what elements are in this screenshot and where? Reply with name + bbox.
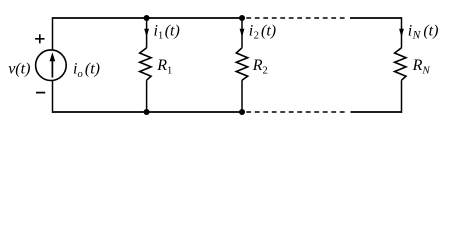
wire RN top lead — [401, 17, 403, 48]
node A top junction 1 — [144, 15, 150, 21]
svg-text:i1(t): i1(t) — [154, 23, 180, 42]
current arrow i1 — [144, 29, 149, 38]
wire top-left horizontal — [53, 17, 243, 19]
wire top dashed — [246, 17, 346, 19]
resistor RN — [395, 48, 406, 80]
resistor R2 — [236, 48, 247, 80]
wire source top lead — [52, 17, 54, 50]
node B top junction 2 — [239, 15, 245, 21]
node D bottom junction 2 — [239, 109, 245, 115]
wire bottom dashed — [246, 111, 346, 113]
wire bottom-right solid — [351, 111, 402, 113]
current source arrow — [50, 52, 56, 77]
svg-text:io(t): io(t) — [73, 61, 100, 81]
current arrow iN — [399, 29, 404, 38]
wire RN bottom lead — [401, 80, 403, 113]
svg-text:v(t): v(t) — [8, 61, 30, 78]
wire R2 bottom lead — [241, 80, 243, 112]
label plus — [35, 34, 44, 43]
wire R2 top lead — [241, 18, 243, 48]
resistor R1 — [140, 48, 151, 80]
node C bottom junction 1 — [144, 109, 150, 115]
wire top-right solid — [350, 17, 402, 19]
wire source bottom lead — [52, 81, 54, 113]
label minus — [36, 92, 45, 94]
current arrow i2 — [240, 29, 245, 38]
wire R1 bottom lead — [146, 80, 148, 112]
current source U1 circle — [36, 50, 67, 81]
svg-text:i2(t): i2(t) — [249, 23, 276, 42]
wire R1 top lead — [146, 18, 148, 48]
wire bottom-left horizontal — [53, 111, 243, 113]
